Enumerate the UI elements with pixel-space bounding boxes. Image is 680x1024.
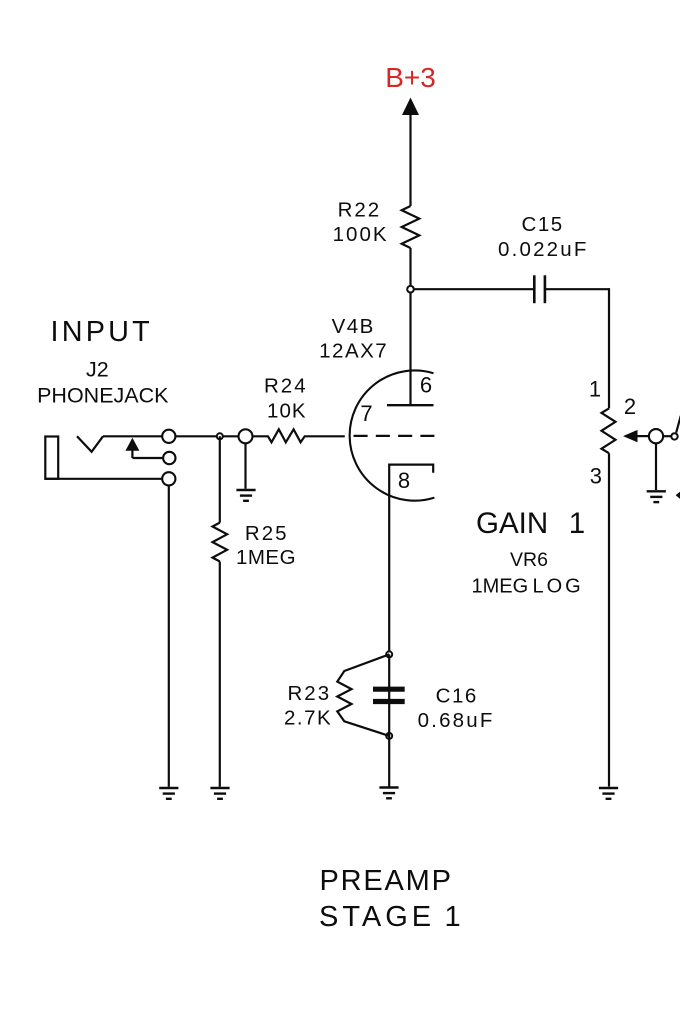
svg-text:V4B: V4B — [332, 315, 375, 338]
svg-text:12AX7: 12AX7 — [319, 340, 388, 363]
svg-text:10K: 10K — [267, 400, 306, 423]
svg-text:C15: C15 — [522, 213, 564, 236]
svg-text:7: 7 — [360, 401, 372, 426]
svg-text:1: 1 — [445, 901, 461, 933]
svg-text:3: 3 — [590, 463, 602, 488]
svg-text:GAIN: GAIN — [476, 507, 548, 540]
svg-text:2: 2 — [624, 394, 636, 419]
svg-text:PREAMP: PREAMP — [320, 865, 453, 897]
svg-text:R24: R24 — [264, 375, 308, 398]
svg-text:0.022uF: 0.022uF — [498, 238, 589, 261]
svg-text:0.68uF: 0.68uF — [418, 709, 495, 732]
svg-text:1MEG: 1MEG — [472, 576, 529, 598]
svg-text:R23: R23 — [287, 682, 331, 705]
svg-text:6: 6 — [420, 373, 432, 398]
svg-text:STAGE: STAGE — [319, 901, 435, 933]
svg-text:B+3: B+3 — [385, 62, 436, 93]
svg-text:VR6: VR6 — [510, 549, 548, 571]
svg-text:R22: R22 — [338, 199, 382, 222]
svg-text:LOG: LOG — [533, 576, 584, 598]
svg-text:1MEG: 1MEG — [236, 546, 296, 569]
svg-text:2.7K: 2.7K — [284, 706, 332, 729]
svg-text:100K: 100K — [333, 223, 389, 246]
svg-text:8: 8 — [398, 468, 410, 493]
svg-text:J2: J2 — [86, 358, 109, 382]
svg-text:INPUT: INPUT — [51, 316, 153, 348]
svg-text:1: 1 — [569, 507, 585, 540]
svg-text:1: 1 — [589, 377, 601, 402]
svg-text:PHONEJACK: PHONEJACK — [37, 384, 169, 408]
svg-text:C16: C16 — [436, 684, 478, 707]
svg-text:R25: R25 — [245, 522, 289, 545]
